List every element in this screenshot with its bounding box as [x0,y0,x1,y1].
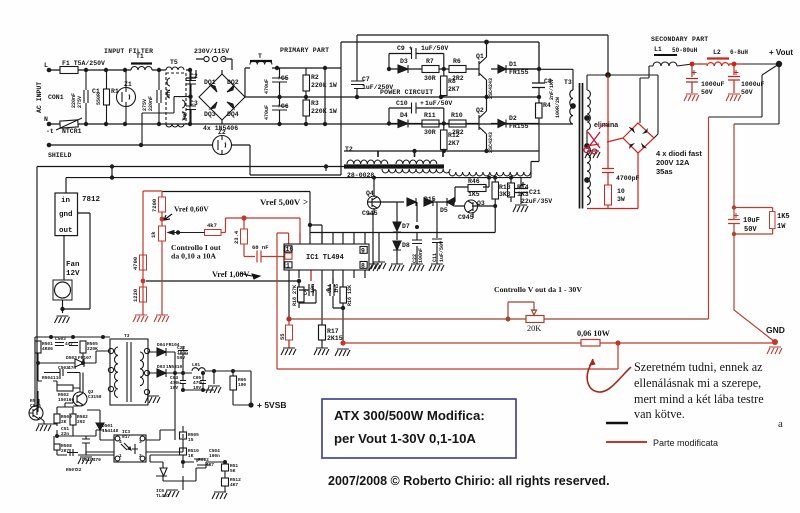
svg-text:1220: 1220 [132,289,139,302]
svg-text:100: 100 [238,382,246,388]
svg-text:110: 110 [53,375,61,381]
svg-text:100R/2W: 100R/2W [555,97,561,118]
svg-text:4700: 4700 [132,257,139,270]
svg-text:6-8uH: 6-8uH [730,49,748,56]
svg-text:50V: 50V [177,355,185,361]
svg-text:R7: R7 [426,58,434,65]
svg-text:+C6: +C6 [277,103,289,110]
svg-text:Z1: Z1 [124,81,132,88]
svg-text:C7: C7 [362,76,370,83]
svg-text:R6: R6 [453,58,461,65]
svg-text:1uF/50V: 1uF/50V [425,100,452,107]
svg-text:1W: 1W [329,82,337,89]
svg-text:30R: 30R [424,129,436,136]
svg-text:F1 T5A/250V: F1 T5A/250V [62,60,105,67]
svg-text:Q3: Q3 [477,200,485,207]
svg-text:4n7: 4n7 [166,89,172,98]
svg-text:4K86: 4K86 [42,346,53,352]
svg-text:C545: C545 [30,403,41,409]
svg-text:Vref 0,60V: Vref 0,60V [174,205,209,214]
svg-text:100n: 100n [209,453,220,459]
svg-text:470uF: 470uF [264,105,270,120]
svg-text:68 nF: 68 nF [252,244,269,251]
svg-text:FR107: FR107 [78,355,92,361]
svg-text:2K15: 2K15 [327,335,343,342]
svg-text:8: 8 [361,263,365,270]
svg-text:+ 5VSB: + 5VSB [257,400,287,410]
svg-text:R4: R4 [543,102,551,109]
svg-text:1: 1 [286,263,290,270]
svg-text:GND: GND [766,325,785,335]
svg-text:+C5: +C5 [277,75,289,82]
svg-text:1k: 1k [150,231,157,238]
svg-text:AC INPUT: AC INPUT [36,82,43,113]
svg-text:3K3: 3K3 [499,191,511,198]
svg-text:4K7: 4K7 [206,462,214,468]
svg-text:N: N [44,116,48,123]
svg-text:R18 27K: R18 27K [292,285,298,306]
svg-text:275V: 275V [142,99,148,111]
svg-text:C10: C10 [396,100,408,107]
svg-text:150160: 150160 [58,397,75,403]
svg-text:CON1: CON1 [48,94,64,101]
svg-text:0,06 10W: 0,06 10W [577,329,611,338]
svg-text:470uF: 470uF [264,79,270,94]
svg-text:1K5: 1K5 [777,213,790,221]
svg-text:220nF: 220nF [148,96,154,111]
svg-text:POWER CIRCUIT: POWER CIRCUIT [380,89,433,96]
svg-text:T2: T2 [345,146,353,153]
svg-text:SECONDARY PART: SECONDARY PART [651,36,708,43]
svg-text:T3: T3 [564,79,572,86]
svg-text:2: 2 [139,453,142,459]
svg-text:10V: 10V [193,385,201,391]
svg-text:22: 22 [76,467,82,473]
svg-text:FR155: FR155 [509,123,529,130]
svg-text:Vref 5,00V: Vref 5,00V [260,197,301,207]
svg-text:R2: R2 [311,74,319,81]
svg-text:C3: C3 [190,100,198,107]
svg-text:55: 55 [279,333,286,340]
svg-text:D3: D3 [400,58,408,65]
svg-text:mert mind a két lába testre: mert mind a két lába testre [634,392,764,406]
svg-text:-t: -t [46,128,54,135]
svg-text:L1: L1 [654,46,662,53]
svg-text:NTCR1: NTCR1 [62,128,82,135]
svg-text:3W: 3W [617,196,625,203]
svg-text:4 x diodi fast: 4 x diodi fast [656,149,702,158]
svg-text:1n5: 1n5 [334,284,340,293]
svg-text:50-80uH: 50-80uH [672,47,698,54]
svg-text:Fan: Fan [66,261,80,269]
svg-text:>: > [303,197,308,207]
svg-text:R8: R8 [448,78,456,85]
svg-text:L01: L01 [192,362,200,368]
svg-text:T5: T5 [170,59,178,66]
svg-text:R17: R17 [327,328,339,335]
svg-text:220K: 220K [87,346,98,352]
svg-text:2K7: 2K7 [448,140,460,147]
svg-text:2007/2008 © Roberto Chirio: al: 2007/2008 © Roberto Chirio: all rights r… [328,474,610,488]
svg-text:1N4148: 1N4148 [102,428,119,434]
svg-text:23.4: 23.4 [233,230,240,244]
svg-text:D503: D503 [66,355,77,361]
svg-text:D2: D2 [509,115,517,122]
svg-text:+: + [420,100,424,107]
svg-text:1W: 1W [777,223,786,231]
svg-text:Szeretném tudni, ennek az: Szeretném tudni, ennek az [634,360,763,374]
svg-text:2K7: 2K7 [61,448,69,454]
svg-text:C4: C4 [303,289,309,295]
svg-text:100nF: 100nF [418,248,424,263]
svg-text:R10: R10 [451,112,463,119]
svg-text:D5: D5 [440,207,448,214]
svg-text:+ Vout: + Vout [769,48,793,57]
svg-text:PRIMARY PART: PRIMARY PART [280,47,329,54]
svg-text:1uF/50V: 1uF/50V [421,45,448,52]
svg-text:C11: C11 [432,253,438,262]
svg-text:D8: D8 [402,242,410,249]
svg-text:275V: 275V [77,96,83,108]
svg-text:10n: 10n [310,284,316,293]
svg-text:220k: 220k [311,82,327,89]
svg-text:R14: R14 [517,184,529,191]
svg-text:gnd: gnd [59,211,73,219]
svg-text:DQ4: DQ4 [227,111,239,118]
svg-text:4n7: 4n7 [65,341,73,347]
svg-text:16: 16 [286,246,294,253]
svg-text:7200: 7200 [151,199,158,212]
svg-text:1K3: 1K3 [517,191,529,198]
svg-text:9: 9 [361,248,365,255]
svg-text:2K: 2K [61,419,67,425]
svg-text:50V: 50V [741,89,753,96]
svg-text:4n7: 4n7 [182,111,188,120]
svg-text:da 0,10 a 10A: da 0,10 a 10A [171,252,216,261]
svg-text:35as: 35as [656,167,673,176]
svg-text:202: 202 [77,419,85,425]
svg-text:FR155: FR155 [509,69,529,76]
svg-text:5K: 5K [230,468,236,474]
svg-text:Q1: Q1 [476,53,484,60]
svg-text:C21: C21 [529,189,541,196]
svg-text:220K: 220K [311,108,327,115]
svg-text:T3: T3 [124,333,130,339]
svg-text:C3150: C3150 [88,394,102,400]
svg-text:R12: R12 [448,132,460,139]
svg-text:Q2: Q2 [476,107,484,114]
svg-text:INPUT FILTER: INPUT FILTER [104,48,153,55]
svg-text:1uF/50V: 1uF/50V [439,241,445,262]
svg-text:28-0028: 28-0028 [347,172,374,179]
svg-text:1W: 1W [329,108,337,115]
svg-text:van kötve.: van kötve. [634,407,685,421]
svg-text:1000uF: 1000uF [701,81,725,88]
svg-text:550R: 550R [96,93,102,105]
svg-text:10: 10 [617,188,625,195]
svg-text:1N5819: 1N5819 [166,364,183,370]
svg-text:4k7: 4k7 [207,222,217,229]
svg-text:4K7: 4K7 [230,482,238,488]
svg-text:DQ1: DQ1 [204,79,216,86]
svg-text:IC1 TL494: IC1 TL494 [306,254,344,262]
svg-text:R11: R11 [424,112,436,119]
svg-text:R1: R1 [111,88,119,95]
svg-text:200V 12A: 200V 12A [656,158,690,167]
svg-text:Controllo V out da 1 - 30V: Controllo V out da 1 - 30V [494,285,582,294]
svg-text:3: 3 [139,439,142,445]
svg-text:47n: 47n [68,365,76,371]
svg-text:ellenálásnak mi a szerepe,: ellenálásnak mi a szerepe, [634,376,761,390]
svg-text:a: a [778,418,783,430]
svg-text:50V: 50V [744,226,757,234]
svg-text:ATX 300/500W Modifica:: ATX 300/500W Modifica: [334,408,485,423]
svg-text:DQ3: DQ3 [204,111,216,118]
svg-text:2nF/1KV: 2nF/1KV [549,79,555,100]
svg-text:SHIELD: SHIELD [48,152,72,159]
svg-text:Z2: Z2 [218,129,226,136]
svg-text:12V: 12V [66,270,80,278]
svg-text:R46: R46 [468,178,480,185]
svg-text:D03: D03 [157,364,165,370]
svg-text:per Vout 1-30V 0,1-10A: per Vout 1-30V 0,1-10A [334,431,476,446]
svg-text:4: 4 [119,439,122,445]
svg-text:D4: D4 [400,112,408,119]
svg-text:15: 15 [188,437,194,443]
svg-text:R16 12K: R16 12K [347,285,353,306]
svg-text:D1: D1 [509,61,517,68]
svg-text:T1: T1 [136,53,144,60]
svg-text:50V: 50V [701,89,713,96]
svg-text:1K: 1K [188,453,194,459]
svg-text:C11: C11 [327,284,333,293]
svg-text:TL431: TL431 [156,493,170,499]
svg-text:2SC4243: 2SC4243 [488,78,494,99]
svg-text:L2: L2 [713,49,721,56]
svg-text:10V: 10V [170,385,178,391]
svg-text:Parte modificata: Parte modificata [653,438,718,448]
svg-text:1: 1 [119,453,122,459]
svg-text:DQ2: DQ2 [227,79,239,86]
svg-text:R3: R3 [311,100,319,107]
svg-text:230V/115V: 230V/115V [194,48,229,55]
svg-text:4700pF: 4700pF [616,175,640,182]
svg-text:in: in [61,197,71,205]
svg-text:C945: C945 [362,210,378,217]
svg-text:1000uF: 1000uF [741,81,765,88]
svg-text:D7: D7 [402,223,410,230]
svg-text:20K: 20K [527,324,541,333]
svg-text:22uF/35V: 22uF/35V [521,198,552,205]
svg-text:out: out [59,227,73,235]
svg-text:2SC4243: 2SC4243 [488,132,494,153]
svg-text:Q4: Q4 [366,190,374,197]
svg-text:C945: C945 [458,214,474,221]
svg-text:1K5: 1K5 [468,191,480,198]
svg-text:C2: C2 [190,73,198,80]
svg-text:7812: 7812 [82,196,101,204]
svg-text:L: L [44,62,48,69]
svg-text:R504: R504 [42,375,53,381]
svg-text:D04: D04 [157,342,165,348]
svg-text:817: 817 [122,434,130,440]
svg-text:C9 +: C9 + [397,45,413,52]
svg-text:30R: 30R [424,75,436,82]
svg-text:2K7: 2K7 [448,86,460,93]
svg-text:D15: D15 [424,196,436,203]
svg-text:R13: R13 [499,184,511,191]
svg-text:C479: C479 [90,457,101,463]
svg-text:10uF: 10uF [743,217,760,225]
svg-text:22n: 22n [61,431,69,437]
svg-text:T: T [258,53,262,60]
